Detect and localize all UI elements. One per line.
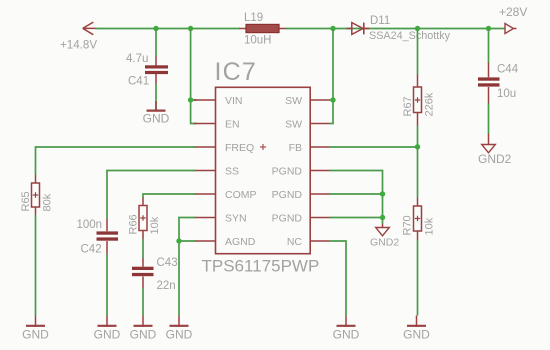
wire: NC to GND xyxy=(330,241,347,316)
ground GND (under R70) xyxy=(403,316,430,342)
capacitor C42 100n xyxy=(77,219,119,256)
svg-text:L19: L19 xyxy=(244,12,263,24)
wire: SYN and AGND to GND xyxy=(179,218,196,316)
wire: down to R67 xyxy=(417,29,419,75)
ground GND (under C43) xyxy=(130,316,157,342)
svg-text:COMP: COMP xyxy=(225,189,257,201)
capacitor C44 10u xyxy=(478,63,519,104)
svg-text:10uH: 10uH xyxy=(244,35,272,47)
svg-text:FREQ: FREQ xyxy=(225,142,254,154)
wire: top rail from +14.8V to L19 xyxy=(96,28,240,30)
ground GND (under AGND/SYN) xyxy=(166,316,193,342)
svg-text:EN: EN xyxy=(225,118,240,130)
capacitor C41 4.7u xyxy=(126,53,168,88)
svg-text:22n: 22n xyxy=(157,280,176,292)
svg-text:PGND: PGND xyxy=(272,212,303,224)
svg-text:GND: GND xyxy=(403,327,430,341)
svg-text:VIN: VIN xyxy=(225,95,243,107)
FREQ pin red plus mark xyxy=(260,144,266,150)
svg-text:C43: C43 xyxy=(157,257,178,269)
svg-text:R70: R70 xyxy=(402,215,414,235)
junction at AGND xyxy=(176,238,181,243)
power arrow +28V xyxy=(505,24,517,34)
svg-text:FB: FB xyxy=(289,142,302,154)
junction at PGND2 xyxy=(380,191,385,196)
svg-text:4.7u: 4.7u xyxy=(126,53,148,65)
svg-text:PGND: PGND xyxy=(272,165,303,177)
svg-text:SW: SW xyxy=(285,95,302,107)
wire: C41 column green parts xyxy=(155,29,157,110)
svg-text:SS: SS xyxy=(225,165,239,177)
svg-text:10k: 10k xyxy=(424,217,436,235)
ground GND2 (under PGND rail) xyxy=(370,224,399,248)
svg-text:GND: GND xyxy=(22,327,49,341)
power supply arrow +14.8V xyxy=(83,22,97,35)
IC7 right pin stubs xyxy=(310,100,329,241)
svg-text:C42: C42 xyxy=(81,244,102,256)
IC7 left pin stubs xyxy=(194,100,216,241)
wire: R67 to FB junction xyxy=(417,126,419,147)
svg-text:C44: C44 xyxy=(497,64,519,76)
ground GND (under C42) xyxy=(94,316,121,342)
ground under C41 xyxy=(143,101,170,126)
resistor R70 10k xyxy=(402,198,436,240)
wire: down to C44 xyxy=(488,29,490,63)
wire: SS to C42 xyxy=(107,171,196,219)
wire: FB junction down to R70 xyxy=(417,147,419,198)
ground GND2 (under C44) xyxy=(478,145,512,166)
wire: C43 to GND xyxy=(142,288,144,316)
junction at SW1 xyxy=(330,97,335,102)
svg-text:AGND: AGND xyxy=(225,236,256,248)
wire: R70 to GND xyxy=(417,240,419,316)
wire: branch down to VIN and EN xyxy=(191,29,197,124)
wire: branch down to SW pins xyxy=(330,29,334,124)
junction at VIN branch xyxy=(188,26,193,31)
svg-text:NC: NC xyxy=(287,236,303,248)
wire: FB line xyxy=(330,146,418,148)
wire: C44 to GND2 xyxy=(488,104,490,135)
svg-text:GND: GND xyxy=(130,327,157,341)
junction at R67 xyxy=(415,26,420,31)
svg-text:R65: R65 xyxy=(20,191,32,211)
junction at VIN pin xyxy=(188,97,193,102)
svg-text:C41: C41 xyxy=(128,76,149,88)
svg-text:GND: GND xyxy=(166,327,193,341)
inductor L19 10uH xyxy=(239,12,287,47)
capacitor C43 22n xyxy=(132,257,178,292)
svg-text:GND: GND xyxy=(94,327,121,341)
svg-text:GND2: GND2 xyxy=(478,152,512,166)
wire: C42 to GND xyxy=(106,255,108,316)
svg-text:R66: R66 xyxy=(128,214,140,234)
wire: L19 to +28V rail xyxy=(286,28,505,30)
svg-text:SYN: SYN xyxy=(225,212,247,224)
junction at SW branch xyxy=(330,26,335,31)
junction at PGND3 xyxy=(380,215,385,220)
svg-text:10u: 10u xyxy=(497,88,516,100)
svg-text:PGND: PGND xyxy=(272,189,303,201)
svg-text:GND2: GND2 xyxy=(370,236,399,248)
svg-text:SW: SW xyxy=(285,118,302,130)
resistor R67 226k xyxy=(402,75,436,127)
svg-text:IC7: IC7 xyxy=(215,58,258,86)
ground GND (under R65) xyxy=(22,316,49,342)
wire: R65 to GND xyxy=(35,215,37,316)
svg-text:+14.8V: +14.8V xyxy=(60,38,97,51)
wire: R66 to C43 xyxy=(142,239,144,258)
wire: COMP to R66 xyxy=(143,194,196,198)
junction at C44 xyxy=(486,26,491,31)
junction at FB/R67/R70 xyxy=(415,144,420,149)
junction at C41 top xyxy=(153,26,158,31)
svg-text:226k: 226k xyxy=(424,92,436,116)
wire: PGND pins to GND2 rail xyxy=(330,171,383,225)
wire: FREQ to R65 xyxy=(36,147,197,175)
resistor R65 80k xyxy=(20,175,54,216)
svg-text:100n: 100n xyxy=(77,219,103,231)
resistor R66 10k xyxy=(128,198,162,240)
IC U7 box (TPS61175PWP) xyxy=(202,58,320,276)
svg-text:SSA24_Schottky: SSA24_Schottky xyxy=(369,30,451,42)
IC7 pin labels xyxy=(225,95,302,248)
svg-text:+28V: +28V xyxy=(499,5,527,19)
svg-text:80k: 80k xyxy=(42,193,54,211)
svg-text:10k: 10k xyxy=(149,216,161,234)
svg-text:GND: GND xyxy=(333,327,360,341)
svg-text:GND: GND xyxy=(143,112,170,126)
ground GND (under NC) xyxy=(333,316,360,342)
svg-text:R67: R67 xyxy=(402,96,414,116)
diode D11 xyxy=(347,15,451,42)
svg-text:TPS61175PWP: TPS61175PWP xyxy=(202,257,320,276)
svg-text:D11: D11 xyxy=(370,15,390,27)
